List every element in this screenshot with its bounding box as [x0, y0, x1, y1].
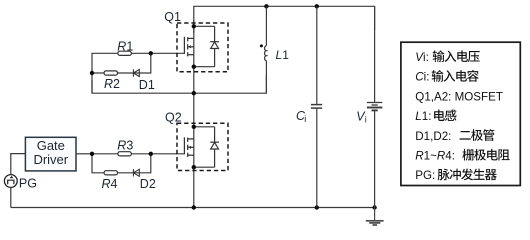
body diode of Q1: [194, 26, 219, 66]
wire: R2+D1 branch: [92, 53, 151, 73]
svg-text:D1: D1: [139, 78, 155, 92]
capacitor Ci: [311, 6, 322, 207]
svg-text:L1:: L1:: [415, 110, 431, 123]
voltage source Vi (battery): [367, 6, 382, 207]
svg-text:R4: R4: [102, 177, 118, 191]
svg-text:Driver: Driver: [33, 152, 68, 167]
node: switch node junction on center rail: [192, 91, 196, 95]
svg-text:D1,D2:: D1,D2:: [415, 130, 451, 143]
node: Vi- / ground junction: [372, 205, 376, 209]
ground symbol: [366, 208, 384, 226]
node: Q2 source on ground bus: [192, 205, 196, 209]
svg-text:D2: D2: [140, 177, 156, 191]
node: Q2 source-diode junction: [192, 165, 196, 169]
gate driver box U1: [25, 137, 76, 171]
node: Ci- on ground bus: [315, 205, 319, 209]
node: R3/R4 left junction: [90, 152, 94, 156]
node: Ci tap on top bus: [315, 4, 319, 8]
wire: center rail through Q1 and Q2: [193, 20, 195, 208]
svg-text:i: i: [365, 115, 367, 125]
svg-text:Q1: Q1: [164, 10, 181, 24]
svg-text:Q1,A2: MOSFET: Q1,A2: MOSFET: [415, 90, 503, 103]
node: R1/D1 right junction: [149, 51, 153, 55]
node: Q2 drain-diode junction: [192, 125, 196, 129]
transistor Q2 MOSFET symbol: [184, 137, 193, 157]
svg-text:Q2: Q2: [165, 110, 182, 124]
svg-text:Gate: Gate: [37, 138, 65, 153]
svg-text:PG: PG: [19, 176, 37, 190]
wire: gate driver output: [76, 153, 92, 155]
svg-text:R3: R3: [117, 138, 133, 152]
svg-text:R1~R4:: R1~R4:: [415, 150, 455, 163]
body diode of Q2: [194, 127, 219, 167]
L1 polarity dot: [260, 44, 263, 47]
svg-text:Ci:: Ci:: [415, 71, 429, 84]
wire: switch-node from gate-short net to L1 bottom: [92, 75, 266, 93]
node: Q1 drain-diode junction: [192, 24, 196, 28]
pulse generator PG: [4, 175, 17, 188]
svg-text:Vi:: Vi:: [415, 51, 429, 64]
wire: R3 branch (Q2 gate): [92, 153, 184, 155]
resistor R3: [118, 152, 131, 156]
resistor R2: [104, 71, 117, 75]
wire: PG return to ground bus: [10, 187, 12, 207]
svg-text:R1: R1: [117, 39, 133, 53]
legend box: [401, 42, 520, 185]
node: L1 tap on top bus: [264, 4, 268, 8]
node: R3/D2 right junction: [149, 152, 153, 156]
diode D2: [133, 169, 139, 176]
node: Q1 source-diode junction: [192, 65, 196, 69]
resistor R1: [118, 51, 131, 55]
diode D1: [133, 69, 139, 76]
transistor Q1 (dashed package box): [177, 23, 228, 72]
transistor Q2 (dashed package box): [177, 123, 228, 170]
wire: PG to Gate Driver input: [11, 154, 26, 175]
svg-text:PG:: PG:: [415, 169, 435, 182]
node: R1/R2 left junction: [90, 71, 94, 75]
wire: R4+D2 branch: [92, 154, 151, 173]
inductor L1: [265, 6, 267, 93]
transistor Q1 MOSFET symbol: [184, 37, 193, 57]
resistor R4: [104, 171, 117, 175]
wire: bottom ground bus from PG to Vi-: [11, 207, 375, 209]
svg-text:i: i: [304, 114, 306, 124]
svg-text:L1: L1: [276, 48, 290, 62]
svg-text:R2: R2: [104, 77, 120, 91]
wire: R1 branch (Q1 gate): [92, 53, 184, 93]
wire: top bus from Q1 drain to Vi+: [194, 6, 375, 33]
